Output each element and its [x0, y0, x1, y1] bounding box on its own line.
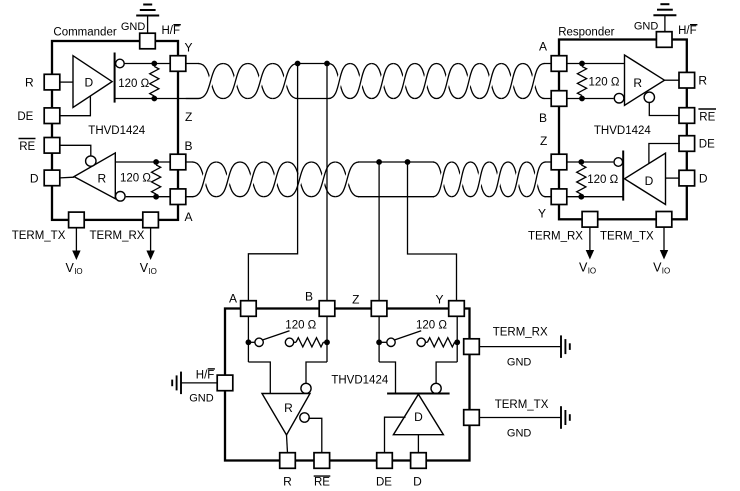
- svg-text:GND: GND: [189, 393, 214, 405]
- label GND (stub TERM_RX): [507, 357, 532, 369]
- svg-text:IO: IO: [74, 267, 82, 276]
- pin TERM_RX (stub): [464, 339, 480, 355]
- pin DE (Commander): [44, 108, 60, 124]
- wire R pin to driver (Commander): [60, 81, 73, 83]
- svg-text:B: B: [539, 111, 547, 125]
- pin TERM_RX (Responder): [582, 212, 598, 228]
- label RE (stub): [314, 476, 331, 488]
- twisted pair rails (top pair Y-A / Z-B): [186, 64, 551, 99]
- wire receiver bottom input to A (Commander): [126, 196, 171, 198]
- svg-text:RE: RE: [699, 111, 715, 123]
- svg-text:R: R: [97, 172, 106, 186]
- receiver R (Commander): [74, 153, 115, 199]
- pin H/F (stub): [217, 375, 233, 391]
- wire tap 2 to B pin (stub): [326, 64, 328, 301]
- label 120 Ohm receiver (Commander): [120, 173, 151, 185]
- svg-text:D: D: [414, 410, 423, 424]
- svg-text:120 Ω: 120 Ω: [285, 320, 316, 332]
- svg-text:Y: Y: [538, 207, 546, 221]
- ground (stub TERM_RX): [561, 335, 570, 358]
- node driver bottom (Commander): [151, 96, 157, 102]
- svg-text:D: D: [84, 76, 93, 90]
- input bubble receiver (stub): [301, 383, 311, 393]
- pin GND (Commander): [140, 33, 156, 49]
- driver D (Commander): [73, 56, 112, 108]
- label Y (Responder): [538, 207, 546, 221]
- receiver R (Responder): [625, 55, 665, 105]
- pin DE (Responder): [679, 136, 695, 152]
- wire B branch to receiver bubble (stub): [306, 362, 327, 383]
- label THVD1424 (Commander): [88, 125, 145, 137]
- V_IO arrow (Commander TERM_RX): [146, 228, 154, 260]
- svg-text:Commander: Commander: [53, 27, 116, 39]
- svg-text:D: D: [645, 174, 654, 188]
- label TERM_TX (stub): [495, 399, 549, 411]
- label V_IO (Responder TERM_RX): [579, 260, 596, 275]
- switch circle driver (stub): [431, 383, 441, 393]
- label R (stub): [283, 475, 292, 489]
- pin TERM_TX (Responder): [656, 212, 672, 228]
- svg-text:120 Ω: 120 Ω: [587, 174, 618, 186]
- node driver bottom (Responder): [578, 194, 584, 200]
- svg-text:120 Ω: 120 Ω: [120, 173, 151, 185]
- wire Z pin to driver circle (Responder): [567, 161, 614, 163]
- wire H/F pin to ground (stub): [182, 382, 218, 384]
- label D (stub): [413, 475, 422, 489]
- wire A branch to receiver (stub): [248, 362, 270, 394]
- label D (Responder): [699, 171, 708, 185]
- enable bubble receiver (Commander): [86, 156, 96, 166]
- label A (stub): [229, 292, 237, 306]
- label DE (Responder): [699, 139, 715, 151]
- pin A (Responder): [551, 56, 567, 72]
- wire DE pin to driver (Responder): [649, 144, 680, 164]
- svg-text:TERM_RX: TERM_RX: [528, 231, 583, 243]
- switch lever (stub right): [395, 331, 422, 340]
- svg-text:TERM_RX: TERM_RX: [90, 230, 145, 242]
- driver output bar (Responder): [622, 151, 624, 201]
- wire A pin to receiver input (Responder): [567, 63, 625, 65]
- node A branch (stub): [246, 339, 252, 345]
- svg-text:R: R: [698, 74, 707, 88]
- resistor 120 Ohm receiver (Commander): [152, 165, 161, 194]
- node driver top (Responder): [578, 159, 584, 165]
- node tap 2 (top pair): [324, 61, 330, 67]
- svg-text:A: A: [229, 292, 237, 306]
- twisted pair crossing gap casing: [192, 64, 545, 197]
- resistor 120 Ohm driver (Commander): [150, 66, 159, 96]
- Commander label: [53, 27, 116, 39]
- label V_IO (Responder TERM_TX): [653, 260, 670, 275]
- node B branch (stub): [324, 339, 330, 345]
- svg-text:DE: DE: [17, 111, 33, 123]
- pin Z (stub): [371, 301, 387, 317]
- label B (Responder): [539, 111, 547, 125]
- label TERM_TX (Responder): [600, 231, 654, 243]
- pin RE (Responder): [679, 108, 695, 124]
- input bubble receiver (Commander): [116, 192, 126, 202]
- pin TERM_RX (Commander): [143, 212, 159, 228]
- svg-text:DE: DE: [699, 139, 715, 151]
- label DE (stub): [376, 477, 392, 489]
- svg-text:B: B: [305, 290, 313, 304]
- label H/F pin (Responder): [678, 25, 697, 37]
- label D (Commander): [30, 172, 39, 186]
- wire tap 4 to Y pin (stub): [408, 162, 457, 301]
- pin B (Responder): [551, 91, 567, 107]
- pin D (stub): [411, 453, 427, 469]
- svg-text:GND: GND: [121, 21, 146, 33]
- wire TERM_RX to ground (stub): [479, 346, 560, 348]
- label B (Commander): [185, 139, 193, 153]
- Responder label: [558, 27, 614, 39]
- svg-text:R: R: [284, 401, 293, 415]
- svg-text:GND: GND: [507, 357, 532, 369]
- pin R (stub): [280, 453, 296, 469]
- wire receiver to R pin (stub): [287, 435, 288, 453]
- wire GND to ground symbol (Responder): [664, 15, 666, 33]
- switch circle driver (Commander): [116, 59, 125, 68]
- receiver R (stub): [262, 394, 310, 436]
- wire D pin to receiver (Commander): [60, 176, 74, 179]
- label 120 Ohm receiver (Responder): [589, 77, 620, 89]
- svg-text:Z: Z: [540, 134, 547, 148]
- driver output bar (stub): [387, 393, 450, 395]
- svg-text:GND: GND: [507, 428, 532, 440]
- label GND (Commander): [121, 21, 146, 33]
- label 120 Ohm (stub left): [285, 320, 316, 332]
- driver D (stub): [393, 394, 443, 435]
- label TERM_RX (Commander): [90, 230, 145, 242]
- svg-text:Responder: Responder: [558, 27, 614, 39]
- label RE (Responder): [698, 109, 716, 123]
- ground (stub H/F): [172, 372, 181, 395]
- wire Y pin down (stub): [456, 316, 458, 362]
- wire DE pin to driver (stub): [385, 417, 406, 453]
- label GND (stub TERM_TX): [507, 428, 532, 440]
- svg-text:B: B: [185, 139, 193, 153]
- svg-text:120 Ω: 120 Ω: [416, 320, 447, 332]
- wire tap 3 to Z pin (stub): [378, 162, 380, 301]
- wire driver bar to Z line (Commander): [115, 98, 199, 100]
- pin R (Responder): [679, 72, 695, 88]
- wire enable bubble to RE pin (Responder): [649, 103, 679, 116]
- wire receiver top input to B (Commander): [115, 161, 170, 163]
- node receiver top (Commander): [153, 159, 159, 165]
- ground (Responder GND): [653, 4, 676, 15]
- resistor 120 Ohm (stub right): [425, 338, 457, 347]
- node receiver bottom (Commander): [153, 194, 159, 200]
- svg-text:TERM_TX: TERM_TX: [495, 399, 549, 411]
- enable bubble receiver (Responder): [644, 92, 654, 102]
- svg-text:A: A: [539, 40, 547, 54]
- svg-text:R: R: [25, 76, 34, 90]
- node driver top (Commander): [151, 61, 157, 67]
- V_IO arrow (Responder TERM_TX): [660, 227, 668, 259]
- label V_IO (Commander TERM_RX): [140, 261, 157, 276]
- wire Y branch to driver circle (stub): [436, 362, 457, 383]
- label R (Responder): [698, 74, 707, 88]
- V_IO arrow (Commander TERM_TX): [72, 228, 80, 260]
- twisted pair rails (bottom pair B-Y / A-Z): [186, 162, 551, 197]
- pin TERM_TX (stub): [464, 410, 480, 426]
- wire Z pin down (stub): [378, 316, 380, 362]
- driver output bar (Commander): [114, 53, 116, 103]
- svg-text:R: R: [283, 475, 292, 489]
- svg-text:Y: Y: [185, 41, 193, 55]
- wire B pin down (stub): [326, 316, 328, 362]
- label THVD1424 (Responder): [594, 125, 651, 137]
- node Z branch (stub): [376, 339, 382, 345]
- svg-text:Z: Z: [185, 110, 192, 124]
- wire GND to ground symbol (Commander): [147, 16, 149, 35]
- pin A (Commander): [170, 189, 186, 205]
- svg-text:GND: GND: [634, 21, 659, 33]
- svg-text:V: V: [140, 261, 149, 275]
- ground (Commander GND): [136, 5, 159, 16]
- label 120 Ohm driver (Commander): [118, 78, 149, 90]
- wire Z node to switch (stub right): [379, 341, 387, 343]
- svg-text:IO: IO: [588, 267, 596, 276]
- label R in receiver (stub): [284, 401, 293, 415]
- resistor 120 Ohm driver (Responder): [577, 165, 586, 194]
- svg-text:RE: RE: [314, 477, 330, 489]
- label GND (Responder): [634, 21, 659, 33]
- label TERM_RX (stub): [493, 327, 548, 339]
- twisted pair rising strands (top pair): [198, 64, 544, 99]
- pin R (Commander): [44, 74, 60, 90]
- resistor 120 Ohm (stub left): [294, 338, 327, 347]
- twisted pair falling strands (top pair Y-A / Z-B): [198, 64, 544, 99]
- svg-text:RE: RE: [19, 141, 35, 153]
- pin Y (stub): [449, 301, 465, 317]
- wire Z branch to driver bar (stub): [379, 362, 395, 394]
- switch lever (stub left): [263, 331, 290, 340]
- label 120 Ohm (stub right): [416, 320, 447, 332]
- svg-text:Y: Y: [435, 293, 443, 307]
- svg-text:DE: DE: [376, 477, 392, 489]
- pin Y (Responder): [551, 189, 567, 205]
- wire D pin to driver (Responder): [666, 177, 680, 179]
- svg-text:H/F: H/F: [678, 25, 697, 37]
- node Y branch (stub): [454, 339, 460, 345]
- wire TERM_TX to ground (stub): [479, 417, 560, 419]
- svg-text:TERM_TX: TERM_TX: [12, 230, 66, 242]
- svg-text:D: D: [699, 171, 708, 185]
- pin RE (Commander): [44, 138, 60, 154]
- wire A pin down (stub): [247, 316, 249, 362]
- svg-text:THVD1424: THVD1424: [331, 375, 388, 387]
- enable bubble receiver (stub): [300, 413, 309, 422]
- pin TERM_TX (Commander): [69, 212, 85, 228]
- svg-text:A: A: [185, 210, 193, 224]
- svg-text:D: D: [30, 172, 39, 186]
- node tap 4 (bottom pair): [405, 159, 411, 165]
- svg-text:R: R: [633, 76, 642, 90]
- label DE (Commander): [17, 111, 33, 123]
- svg-text:H/F: H/F: [162, 25, 181, 37]
- label Z (Commander): [185, 110, 192, 124]
- wire driver top to Y (Commander): [124, 63, 170, 65]
- svg-text:V: V: [653, 260, 662, 274]
- pin RE (stub): [314, 453, 330, 469]
- label D in driver (stub): [414, 410, 423, 424]
- wire DE pin to driver (Commander): [60, 96, 91, 116]
- label GND (stub H/F): [189, 393, 214, 405]
- switch contact 2 (stub right): [417, 338, 425, 346]
- svg-text:120 Ω: 120 Ω: [118, 78, 149, 90]
- switch contact 2 (stub left): [285, 338, 293, 346]
- label A (Commander): [185, 210, 193, 224]
- wire A node to switch (stub left): [248, 341, 255, 343]
- pin B (stub): [319, 301, 335, 317]
- Responder block outline: [559, 40, 687, 220]
- label R in receiver (Responder): [633, 76, 642, 90]
- node tap 3 (bottom pair): [376, 159, 382, 165]
- V_IO arrow (Responder TERM_RX): [586, 227, 594, 259]
- svg-text:IO: IO: [662, 267, 670, 276]
- svg-text:D: D: [413, 475, 422, 489]
- twisted pair rising strands (bottom pair): [192, 162, 545, 197]
- svg-text:V: V: [66, 261, 75, 275]
- label R (Commander): [25, 76, 34, 90]
- wire tap 1 to A pin (stub): [248, 64, 297, 301]
- pin Z (Responder): [551, 154, 567, 170]
- label TERM_TX (Commander): [12, 230, 66, 242]
- svg-text:Z: Z: [352, 293, 359, 307]
- label 120 Ohm driver (Responder): [587, 174, 618, 186]
- wire driver to D pin (stub): [417, 435, 419, 453]
- pin A (stub): [241, 301, 257, 317]
- label H/F pin (Commander): [162, 25, 181, 37]
- ground (stub TERM_TX): [561, 406, 570, 429]
- pin B (Commander): [170, 154, 186, 170]
- pin Y (Commander): [170, 56, 186, 72]
- label RE (Commander): [19, 139, 36, 154]
- switch contact 1 (stub right): [387, 338, 395, 346]
- label D in driver (Responder): [645, 174, 654, 188]
- pin D (Commander): [44, 170, 60, 186]
- label A (Responder): [539, 40, 547, 54]
- label TERM_RX (Responder): [528, 231, 583, 243]
- switch circle driver (Responder): [614, 158, 623, 167]
- svg-text:V: V: [579, 260, 588, 274]
- pin GND (Responder): [656, 32, 672, 48]
- label R in receiver (Commander): [97, 172, 106, 186]
- label V_IO (Commander TERM_TX): [66, 261, 83, 276]
- wire Y pin to driver bar (Responder): [567, 196, 623, 198]
- wire RE pin to enable bubble (Commander): [60, 145, 91, 156]
- svg-text:120 Ω: 120 Ω: [589, 77, 620, 89]
- stub block outline: [225, 309, 470, 461]
- svg-text:THVD1424: THVD1424: [88, 125, 145, 137]
- label D in driver (Commander): [84, 76, 93, 90]
- node tap 1 (top pair): [295, 61, 301, 67]
- label H/F (stub): [196, 369, 215, 381]
- wire receiver to R pin (Responder): [665, 79, 680, 81]
- svg-text:THVD1424: THVD1424: [594, 125, 651, 137]
- pin D (Responder): [679, 170, 695, 186]
- label Y (Commander): [185, 41, 193, 55]
- node receiver bottom (Responder): [579, 96, 585, 102]
- svg-text:TERM_TX: TERM_TX: [600, 231, 654, 243]
- svg-text:TERM_RX: TERM_RX: [493, 327, 548, 339]
- pin DE (stub): [377, 453, 393, 469]
- wire enable bubble to RE pin (stub): [308, 418, 322, 453]
- input bubble receiver (Responder): [614, 93, 624, 103]
- label THVD1424 (stub): [331, 375, 388, 387]
- resistor 120 Ohm receiver (Responder): [577, 66, 586, 95]
- driver D (Responder): [625, 153, 666, 204]
- label B (stub): [305, 290, 313, 304]
- Commander block outline: [52, 41, 178, 220]
- twisted pair falling strands (bottom pair B-Y / A-Z): [192, 162, 545, 197]
- wire B pin to input bubble (Responder): [567, 98, 614, 100]
- label Y (stub): [435, 293, 443, 307]
- svg-text:IO: IO: [148, 267, 156, 276]
- svg-text:H/F: H/F: [196, 369, 215, 381]
- label Z (Responder): [540, 134, 547, 148]
- switch contact 1 (stub left): [255, 338, 263, 346]
- node receiver top (Responder): [579, 61, 585, 67]
- label Z (stub): [352, 293, 359, 307]
